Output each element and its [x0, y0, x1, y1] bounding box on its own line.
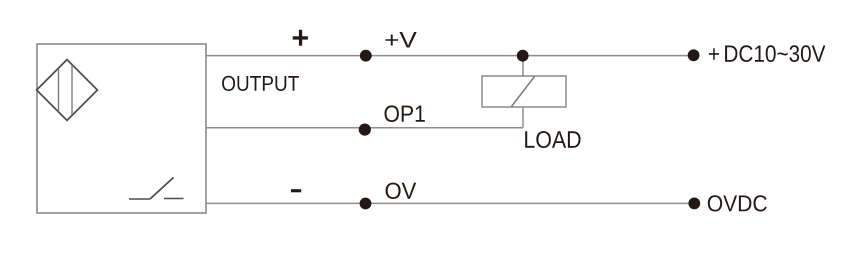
load diagonal stroke	[512, 77, 535, 107]
sensor box	[37, 44, 206, 213]
wire OV (bottom)	[206, 202, 694, 204]
load resistor body	[482, 76, 566, 107]
label OUTPUT	[222, 76, 299, 91]
lens line 1	[58, 68, 60, 111]
label LOAD	[525, 131, 580, 148]
polarity + symbol	[293, 30, 308, 46]
label OP1	[385, 105, 425, 122]
label +V	[385, 32, 416, 48]
node +DC terminal	[688, 49, 700, 61]
wire OP1 (middle)	[206, 127, 523, 129]
label OV	[386, 183, 417, 199]
lens line 2	[71, 65, 73, 115]
node OV	[360, 198, 372, 210]
load top lead wire	[522, 56, 524, 76]
switch contact blade	[150, 178, 174, 200]
node +V junction	[360, 50, 372, 62]
label +DC10~30V	[709, 45, 826, 62]
switch contact left lead	[129, 198, 150, 200]
wire +V (top)	[206, 55, 694, 57]
node OP1	[359, 124, 371, 136]
polarity - symbol	[291, 189, 301, 192]
switch contact right lead	[164, 198, 184, 200]
label OVDC	[708, 195, 767, 211]
sensor optical symbol (diamond)	[37, 60, 98, 121]
load bottom lead wire	[522, 107, 524, 128]
node load junction	[517, 50, 529, 62]
node OVDC terminal	[688, 198, 700, 210]
